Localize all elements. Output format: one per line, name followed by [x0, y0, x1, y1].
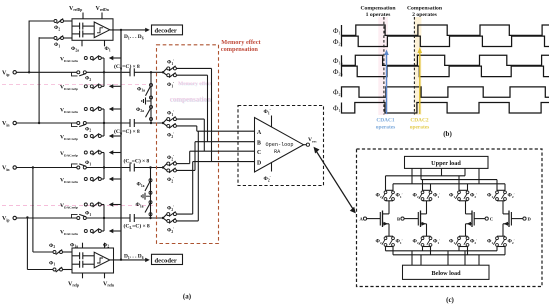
- svg-text:Φ1′: Φ1′: [396, 239, 403, 245]
- svg-text:(Cu=C) × 8: (Cu=C) × 8: [114, 128, 140, 135]
- svg-text:Φ1′: Φ1′: [167, 110, 174, 116]
- svg-text:Φ1′: Φ1′: [396, 193, 403, 199]
- svg-text:compensation: compensation: [221, 46, 259, 53]
- svg-text:Φ2′: Φ2′: [167, 155, 174, 161]
- svg-text:D1. . . D6: D1. . . D6: [124, 254, 144, 260]
- svg-text:(Cu=C) × 8: (Cu=C) × 8: [114, 63, 140, 70]
- svg-text:D: D: [257, 160, 261, 166]
- svg-text:Φ2′: Φ2′: [508, 239, 515, 245]
- svg-text:B: B: [397, 217, 400, 222]
- svg-text:Φ1′: Φ1′: [333, 103, 342, 113]
- svg-text:Upper load: Upper load: [431, 160, 461, 167]
- svg-text:(c): (c): [446, 296, 454, 304]
- svg-text:(Cu=C) × 8: (Cu=C) × 8: [124, 158, 150, 165]
- svg-text:Φ2′: Φ2′: [470, 239, 477, 245]
- svg-text:Memory effect: Memory effect: [178, 81, 212, 87]
- svg-text:Φ1′: Φ1′: [433, 239, 440, 245]
- svg-text:(a): (a): [183, 293, 192, 301]
- svg-text:RA: RA: [274, 149, 281, 155]
- svg-text:Below load: Below load: [431, 270, 461, 277]
- svg-text:Φ2′: Φ2′: [264, 176, 271, 182]
- svg-text:decoder: decoder: [155, 28, 177, 35]
- svg-text:Compensation: Compensation: [360, 5, 396, 11]
- svg-text:Memory effect: Memory effect: [221, 39, 261, 46]
- svg-text:Φ2′: Φ2′: [167, 133, 174, 139]
- svg-text:operates: operates: [410, 125, 429, 131]
- svg-text:Open-loop: Open-loop: [266, 142, 294, 148]
- svg-text:B: B: [257, 140, 261, 146]
- svg-text:1 operates: 1 operates: [366, 12, 392, 18]
- svg-text:(b): (b): [443, 130, 452, 138]
- svg-text:(CL=C) × 8: (CL=C) × 8: [124, 223, 150, 230]
- svg-text:D1. . . D6: D1. . . D6: [124, 34, 144, 40]
- svg-text:Compensation: Compensation: [407, 5, 443, 11]
- svg-text:Φ1′: Φ1′: [167, 60, 174, 66]
- svg-text:2 operates: 2 operates: [412, 12, 438, 18]
- svg-text:Φ2′: Φ2′: [167, 177, 174, 183]
- svg-text:Φ2′: Φ2′: [470, 193, 477, 199]
- svg-text:compensation: compensation: [170, 95, 211, 103]
- svg-text:Φ2′: Φ2′: [167, 205, 174, 211]
- svg-text:operates: operates: [376, 125, 395, 131]
- svg-text:Φ1′: Φ1′: [167, 82, 174, 88]
- svg-text:Φ2′: Φ2′: [333, 88, 342, 98]
- svg-text:C: C: [490, 217, 493, 222]
- svg-text:CDAC2: CDAC2: [410, 118, 429, 124]
- svg-text:Φ1′: Φ1′: [264, 109, 271, 115]
- svg-text:Φ2′: Φ2′: [508, 193, 515, 199]
- svg-text:decoder: decoder: [155, 257, 177, 264]
- svg-text:C: C: [257, 150, 261, 156]
- svg-text:CDAC1: CDAC1: [376, 118, 395, 124]
- svg-text:Φ1′: Φ1′: [433, 193, 440, 199]
- svg-text:Φ2′: Φ2′: [167, 228, 174, 234]
